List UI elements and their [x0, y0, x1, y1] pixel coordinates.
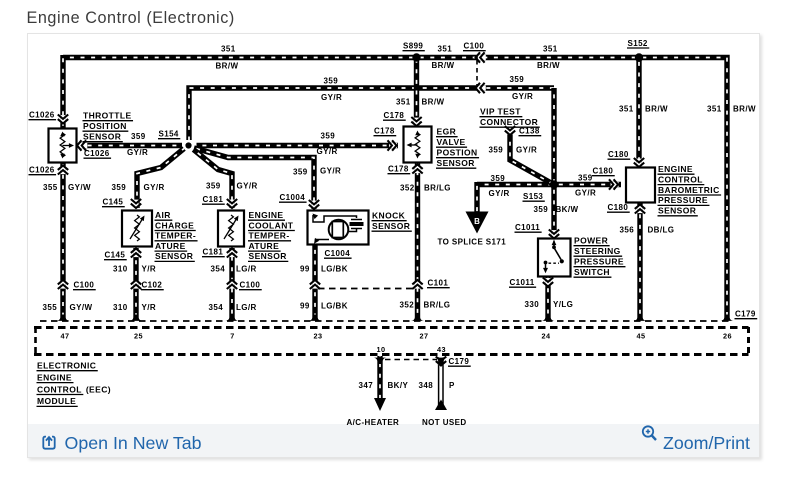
svg-text:359: 359 — [534, 205, 549, 214]
svg-text:ELECTRONIC: ELECTRONIC — [37, 361, 96, 371]
svg-text:C1004: C1004 — [280, 193, 306, 202]
label C181 above — [202, 195, 225, 204]
wire 310 Y/R air charge column to pin 25 — [133, 248, 138, 320]
svg-text:C180: C180 — [608, 150, 629, 159]
label CHARGE — [155, 220, 196, 230]
label S899 — [403, 42, 425, 51]
label PRESSURE of PSP — [574, 257, 626, 267]
svg-text:359: 359 — [491, 174, 506, 183]
svg-text:GY/R: GY/R — [320, 167, 341, 176]
svg-text:348: 348 — [419, 381, 434, 390]
connector C180 BARO side input — [609, 179, 619, 189]
svg-text:STEERING: STEERING — [574, 246, 621, 256]
label C145 above — [102, 198, 125, 207]
label CONTROL of BARO — [658, 174, 705, 184]
label MODULE — [37, 396, 78, 406]
svg-text:COOLANT: COOLANT — [249, 220, 294, 230]
wire 359 GY/R VIP connector drop — [510, 131, 552, 184]
label SENSOR of EGR — [436, 158, 476, 168]
label TEMPER- of ACT — [155, 231, 198, 241]
label VALVE — [436, 137, 467, 147]
power steering pressure switch box — [538, 239, 571, 277]
svg-text:C138: C138 — [519, 127, 540, 136]
svg-text:C145: C145 — [103, 198, 124, 207]
label C1011 above — [515, 223, 542, 232]
label SENSOR of BARO — [658, 206, 698, 216]
svg-text:26: 26 — [723, 332, 732, 341]
label C1026 TPS output — [84, 149, 112, 158]
svg-text:(EEC): (EEC) — [86, 384, 111, 394]
label C1026 upper left — [29, 111, 57, 120]
svg-text:C1026: C1026 — [29, 166, 55, 175]
svg-text:NOT USED: NOT USED — [422, 418, 467, 427]
label ENGINE of EEC — [37, 372, 74, 382]
svg-text:24: 24 — [542, 332, 551, 341]
svg-text:352: 352 — [400, 301, 415, 310]
pin 45 bell at EEC bus — [634, 315, 647, 321]
wire 359 GY/R S154 rail EGR side — [197, 143, 399, 148]
svg-text:359: 359 — [578, 174, 593, 183]
svg-text:EGR: EGR — [437, 127, 457, 137]
label AIR — [155, 210, 173, 220]
label STEERING — [574, 246, 623, 256]
label COOLANT — [248, 220, 295, 230]
svg-text:KNOCK: KNOCK — [372, 211, 406, 221]
svg-text:ENGINE: ENGINE — [658, 164, 693, 174]
pin 24 bell at EEC bus — [542, 315, 555, 321]
label SENSOR of ECT — [248, 251, 288, 261]
connector C1026 TPS wiper output — [77, 140, 87, 150]
svg-text:DB/LG: DB/LG — [648, 226, 675, 235]
label TEMPER- of ECT — [248, 231, 291, 241]
svg-text:45: 45 — [637, 332, 646, 341]
svg-text:C180: C180 — [608, 203, 629, 212]
svg-text:BK/W: BK/W — [556, 205, 579, 214]
svg-text:356: 356 — [620, 226, 635, 235]
svg-text:GY/R: GY/R — [127, 148, 148, 157]
svg-text:A/C-HEATER: A/C-HEATER — [347, 418, 400, 427]
svg-text:330: 330 — [525, 300, 540, 309]
label POSTION — [436, 148, 479, 158]
svg-text:LG/R: LG/R — [236, 265, 257, 274]
svg-text:AIR: AIR — [155, 210, 171, 220]
label S154 — [158, 130, 180, 139]
label C1004 below — [324, 249, 352, 258]
wire 352 BR/LG EGR column to pin 27 — [415, 163, 420, 320]
label C179 right column — [735, 310, 758, 319]
label C145 below — [104, 251, 127, 260]
svg-text:C100: C100 — [240, 281, 261, 290]
svg-text:SENSOR: SENSOR — [437, 158, 475, 168]
EEC module dashed border right edge — [747, 327, 750, 355]
open in new tab icon — [41, 434, 58, 451]
svg-text:SENSOR: SENSOR — [155, 251, 193, 261]
svg-text:GY/R: GY/R — [321, 93, 342, 102]
label C102 air column — [141, 281, 164, 290]
wire 359 GY/R splice S171 stem — [474, 182, 479, 212]
connector C138 VIP test connector — [505, 126, 515, 135]
svg-text:C181: C181 — [203, 195, 224, 204]
svg-text:BR/W: BR/W — [733, 105, 756, 114]
svg-text:C180: C180 — [593, 167, 614, 176]
svg-text:354: 354 — [211, 265, 226, 274]
connector C180 below BARO sensor — [635, 205, 645, 214]
label C178 above EGR — [383, 111, 406, 120]
wire 359 GY/R air charge feed — [137, 149, 184, 209]
label PRESSURE of BARO — [658, 195, 710, 205]
connector C181 above coolant sensor — [227, 199, 237, 208]
label C181 below — [202, 248, 225, 257]
splice S899 — [412, 53, 420, 61]
svg-text:GY/R: GY/R — [575, 189, 596, 198]
EEC module dashed border left edge — [34, 327, 37, 355]
zoom/print magnifier icon — [640, 423, 660, 445]
svg-text:351: 351 — [543, 45, 558, 54]
label ATURE of ECT — [248, 241, 281, 251]
wire 359 GY/R S154 rail TPS side — [78, 143, 182, 148]
svg-text:C1026: C1026 — [29, 111, 55, 120]
A/C-heater output arrow — [374, 398, 386, 411]
svg-text:BR/W: BR/W — [645, 105, 668, 114]
svg-text:GY/R: GY/R — [317, 147, 338, 156]
svg-text:SENSOR: SENSOR — [83, 132, 121, 142]
svg-text:GY/R: GY/R — [237, 182, 258, 191]
connector C102 inline on air charge column — [131, 280, 141, 289]
svg-text:C178: C178 — [388, 165, 409, 174]
label C1011 below — [509, 278, 536, 287]
label C101 — [427, 279, 450, 288]
connector C145 below air charge sensor — [131, 249, 141, 258]
svg-text:351: 351 — [707, 105, 722, 114]
svg-text:SENSOR: SENSOR — [658, 206, 696, 216]
wire 348 P not-used drop (unshielded pair) — [439, 357, 443, 408]
label S153 — [523, 192, 545, 201]
label SENSOR of ACT — [155, 251, 195, 261]
svg-text:47: 47 — [61, 332, 70, 341]
svg-text:SWITCH: SWITCH — [574, 267, 610, 277]
wire 99 LG/BK knock column to pin 23 — [312, 245, 317, 320]
svg-text:355: 355 — [43, 183, 58, 192]
svg-text:TEMPER-: TEMPER- — [249, 231, 290, 241]
svg-text:GY/R: GY/R — [489, 189, 510, 198]
svg-text:PRESSURE: PRESSURE — [574, 257, 624, 267]
label SWITCH — [574, 267, 612, 277]
svg-text:ATURE: ATURE — [155, 241, 186, 251]
svg-text:359: 359 — [206, 182, 221, 191]
svg-text:CONTROL: CONTROL — [37, 384, 82, 394]
svg-text:359: 359 — [324, 77, 339, 86]
pin 47 bell at EEC bus — [57, 315, 70, 321]
svg-text:359: 359 — [112, 183, 127, 192]
svg-text:MODULE: MODULE — [37, 396, 76, 406]
wire 359 GY/R coolant feed — [194, 150, 233, 209]
label VIP TEST — [480, 107, 523, 117]
label POWER — [574, 236, 610, 246]
label ENGINE of ECT — [248, 210, 285, 220]
svg-text:351: 351 — [619, 105, 634, 114]
label C100 top rail — [463, 42, 486, 51]
svg-text:310: 310 — [113, 265, 128, 274]
label C100 coolant column — [239, 281, 262, 290]
pin 10 bell under EEC — [374, 358, 387, 364]
engine control barometric pressure sensor box — [626, 168, 655, 203]
svg-text:BR/W: BR/W — [216, 62, 239, 71]
EEC module connector face thin dashed line — [40, 320, 733, 322]
connector C178 EGR wiper input — [388, 140, 398, 150]
EEC module pin face thin dashed segment between pins 10 and 43 — [385, 359, 437, 361]
connector C101 inline on EGR column — [412, 280, 422, 289]
svg-text:LG/R: LG/R — [236, 303, 257, 312]
label C178 EGR input — [374, 127, 397, 136]
svg-text:VALVE: VALVE — [437, 137, 466, 147]
label BAROMETRIC — [658, 185, 722, 195]
svg-text:7: 7 — [230, 332, 234, 341]
svg-text:BK/Y: BK/Y — [388, 381, 409, 390]
svg-text:43: 43 — [437, 345, 446, 354]
label SENSOR of TPS — [83, 132, 123, 142]
svg-text:BR/LG: BR/LG — [424, 301, 451, 310]
svg-text:Y/R: Y/R — [142, 303, 157, 312]
svg-text:B: B — [474, 217, 480, 226]
wire 359 GY/R second rail from S154 riser to PSP column — [189, 88, 554, 140]
svg-text:355: 355 — [43, 303, 58, 312]
connector C1011 above PSP switch — [549, 230, 559, 239]
svg-text:C102: C102 — [142, 281, 163, 290]
label C1004 above — [279, 193, 307, 202]
svg-text:C100: C100 — [464, 42, 485, 51]
pin 43 bell under EEC — [435, 358, 448, 364]
svg-text:Y/LG: Y/LG — [553, 300, 573, 309]
svg-text:GY/R: GY/R — [512, 92, 533, 101]
connector C100 inline on TPS column — [58, 280, 68, 289]
svg-text:LG/BK: LG/BK — [321, 302, 348, 311]
svg-text:TO SPLICE S171: TO SPLICE S171 — [438, 238, 507, 247]
wire 347 BK/Y pin 10 drop — [377, 356, 382, 400]
svg-text:PRESSURE: PRESSURE — [658, 195, 708, 205]
wire 356 DB/LG BARO column to pin 45 — [637, 203, 642, 320]
splice S152 — [635, 53, 643, 61]
svg-text:C145: C145 — [105, 251, 126, 260]
pin 23 bell at EEC bus — [309, 315, 322, 321]
svg-text:25: 25 — [134, 332, 143, 341]
svg-text:S152: S152 — [628, 39, 648, 48]
svg-text:359: 359 — [510, 75, 525, 84]
svg-text:CONNECTOR: CONNECTOR — [480, 117, 538, 127]
svg-text:BR/W: BR/W — [432, 61, 455, 70]
connector C178 above EGR sensor — [411, 117, 421, 126]
svg-text:27: 27 — [420, 332, 429, 341]
label C180 above BARO drop — [608, 150, 631, 159]
svg-text:BR/W: BR/W — [537, 61, 560, 70]
svg-text:SENSOR: SENSOR — [249, 251, 287, 261]
svg-text:359: 359 — [489, 146, 504, 155]
connector C100 on second rail — [476, 83, 486, 93]
pin 26 bell at EEC bus — [721, 315, 734, 321]
connector C178 below EGR sensor — [412, 165, 422, 174]
wire 351 BR/W top rail with right drop to pin 26 — [63, 58, 727, 321]
splice arrow B to splice S171 — [466, 212, 489, 234]
svg-text:CONTROL: CONTROL — [658, 174, 703, 184]
wire 351 BR/W S899 drop to EGR sensor — [414, 58, 419, 128]
svg-text:C178: C178 — [374, 127, 395, 136]
not-used terminator triangle — [435, 400, 447, 411]
svg-text:S153: S153 — [523, 192, 543, 201]
svg-text:359: 359 — [321, 131, 336, 140]
label POSITION — [83, 121, 129, 131]
connector C179 on not-used lead — [436, 357, 446, 366]
throttle position sensor box (potentiometer) — [49, 129, 77, 163]
svg-text:THROTTLE: THROTTLE — [83, 111, 132, 121]
C100 dashed connector link on rails — [476, 60, 478, 86]
svg-text:351: 351 — [396, 98, 411, 107]
svg-text:ENGINE: ENGINE — [37, 372, 72, 382]
svg-text:VIP TEST: VIP TEST — [480, 107, 521, 117]
svg-text:99: 99 — [300, 302, 310, 311]
svg-text:ENGINE: ENGINE — [249, 210, 284, 220]
svg-text:10: 10 — [377, 345, 386, 354]
connector C1026 above TPS — [58, 115, 68, 124]
svg-text:359: 359 — [293, 168, 308, 177]
svg-text:354: 354 — [209, 303, 224, 312]
svg-text:Y/R: Y/R — [142, 265, 157, 274]
svg-text:TEMPER-: TEMPER- — [155, 231, 196, 241]
air charge temperature sensor box (thermistor) — [122, 211, 152, 247]
connector C180 above BARO sensor — [634, 158, 644, 167]
label ELECTRONIC — [37, 361, 98, 371]
wire 355 GY/W TPS column to pin 47 — [60, 55, 65, 320]
svg-text:C179: C179 — [735, 310, 756, 319]
connector C1011 below PSP switch — [543, 278, 553, 287]
svg-text:BR/LG: BR/LG — [424, 184, 451, 193]
label C178 below EGR — [388, 165, 411, 174]
pin 7 bell at EEC bus — [226, 315, 239, 321]
EEC module dashed border bottom edge — [34, 353, 749, 356]
label S152 — [627, 39, 649, 48]
EGR valve position sensor box (potentiometer) — [404, 127, 432, 163]
label CONNECTOR — [480, 117, 540, 127]
label KNOCK — [372, 211, 407, 221]
label C180 BARO side — [592, 167, 615, 176]
label EGR — [436, 127, 458, 137]
svg-text:C1011: C1011 — [510, 278, 535, 287]
wire 359 GY/R S153 rail to BARO sensor — [477, 182, 621, 187]
svg-text:LG/BK: LG/BK — [321, 265, 348, 274]
svg-text:99: 99 — [300, 265, 310, 274]
svg-text:C1011: C1011 — [515, 223, 540, 232]
svg-text:GY/R: GY/R — [144, 183, 165, 192]
knock sensor box (piezo transducer) — [308, 211, 369, 245]
label C100 TPS column — [73, 281, 96, 290]
label C179 not-used — [448, 357, 471, 366]
label C1026 lower left — [29, 166, 57, 175]
svg-text:310: 310 — [113, 303, 128, 312]
svg-text:BAROMETRIC: BAROMETRIC — [658, 185, 720, 195]
label SENSOR of knock — [372, 221, 412, 231]
shield drain dashed link knock sensor to C101 — [318, 288, 414, 290]
splice S153 — [550, 180, 558, 188]
label ENGINE of BARO — [658, 164, 695, 174]
svg-text:C101: C101 — [428, 279, 449, 288]
svg-text:C1026: C1026 — [84, 149, 110, 158]
label ATURE of ACT — [155, 241, 188, 251]
svg-text:POWER: POWER — [574, 236, 608, 246]
svg-text:CHARGE: CHARGE — [155, 220, 194, 230]
connector C100 on top rail — [476, 52, 486, 62]
svg-text:351: 351 — [438, 45, 453, 54]
svg-text:ATURE: ATURE — [249, 241, 280, 251]
svg-text:POSTION: POSTION — [437, 148, 478, 158]
svg-text:23: 23 — [314, 332, 323, 341]
svg-text:C178: C178 — [384, 111, 405, 120]
connector C1004 inline on knock column — [310, 280, 320, 289]
label C180 below BARO — [607, 203, 630, 212]
svg-text:S899: S899 — [403, 42, 423, 51]
svg-text:GY/W: GY/W — [70, 303, 93, 312]
svg-text:C100: C100 — [74, 281, 95, 290]
svg-text:POSITION: POSITION — [83, 121, 127, 131]
svg-text:S154: S154 — [159, 130, 179, 139]
pin 25 bell at EEC bus — [130, 315, 143, 321]
svg-text:C179: C179 — [449, 357, 470, 366]
connector C145 above air charge sensor — [131, 199, 141, 208]
svg-text:GY/W: GY/W — [68, 183, 91, 192]
svg-text:351: 351 — [221, 45, 236, 54]
svg-text:347: 347 — [359, 381, 374, 390]
wire 351 BR/W S152 drop to BARO sensor — [636, 58, 641, 169]
connector C1026 below TPS — [58, 166, 68, 175]
svg-text:P: P — [449, 381, 455, 390]
wire 359 BK/W PSP column through S153 to switch — [551, 88, 556, 240]
svg-text:C1004: C1004 — [325, 249, 351, 258]
label CONTROL (EEC) — [37, 384, 111, 394]
splice S154 — [185, 142, 191, 148]
svg-text:SENSOR: SENSOR — [372, 221, 410, 231]
svg-text:359: 359 — [131, 132, 146, 141]
pin 27 bell at EEC bus — [411, 315, 424, 321]
svg-text:BR/W: BR/W — [422, 98, 445, 107]
svg-text:GY/R: GY/R — [516, 146, 537, 155]
engine coolant temperature sensor box (thermistor) — [218, 211, 244, 247]
connector C100 inline on coolant column — [227, 280, 237, 289]
wire 330 Y/LG PSP switch to pin 24 — [545, 275, 550, 320]
wire 359 GY/R knock sensor feed — [194, 148, 314, 209]
label C138 — [519, 127, 542, 136]
wire 354 LG/R coolant column to pin 7 — [229, 248, 234, 320]
svg-text:C181: C181 — [203, 248, 224, 257]
label THROTTLE — [83, 111, 134, 121]
EEC module dashed border top edge — [34, 326, 749, 329]
svg-text:352: 352 — [400, 184, 415, 193]
connector C1004 above knock sensor — [309, 200, 319, 209]
connector C181 below coolant sensor — [227, 249, 237, 258]
